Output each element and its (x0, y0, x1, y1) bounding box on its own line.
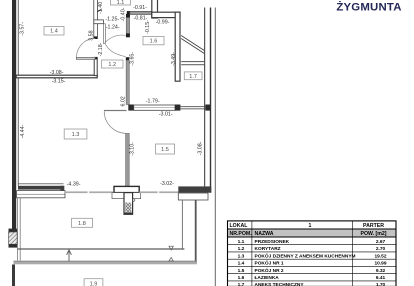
svg-text:LOKAL: LOKAL (230, 223, 249, 229)
svg-text:-3.57-: -3.57- (19, 22, 25, 36)
svg-text:6.41: 6.41 (376, 275, 386, 281)
door jamb cap 1.4 bottom (94, 57, 97, 59)
table horizontal line under row1 (228, 228, 397, 230)
wall right inner face line (204, 8, 205, 187)
entry arrow stem (68, 251, 70, 262)
pier left hatched top cap (9, 229, 18, 232)
column T bar2 (112, 193, 141, 199)
svg-text:-3.08-: -3.08- (198, 141, 204, 155)
terrace floor edge line (17, 248, 184, 249)
svg-text:-3.01-: -3.01- (159, 112, 173, 118)
room label 1.2 (102, 60, 124, 68)
svg-text:ANEKS TECHNICZNY: ANEKS TECHNICZNY (255, 282, 305, 286)
window bottom left outline band (17, 191, 65, 198)
wall divider 1.3/1.5 top cap (126, 57, 129, 60)
svg-text:2.70: 2.70 (376, 246, 386, 252)
svg-text:1.8: 1.8 (78, 221, 86, 227)
window band double line lower (180, 107, 205, 110)
svg-text:-3.08-: -3.08- (50, 70, 64, 76)
table vertical line col2 (351, 221, 353, 286)
svg-text:1.1: 1.1 (117, 0, 125, 6)
room label 1.7 (184, 72, 202, 80)
svg-text:-1.24-: -1.24- (106, 24, 120, 30)
wall bottom right dark band (178, 186, 211, 192)
wall bottom left dark band (18, 186, 64, 190)
svg-text:-3.15-: -3.15- (52, 79, 66, 85)
svg-text:1.6: 1.6 (150, 39, 158, 45)
column T stem (124, 193, 133, 215)
room label 1.8 (72, 218, 93, 227)
dimension tick top left (97, 10, 101, 12)
svg-text:1.70: 1.70 (376, 282, 386, 286)
window band pier 3 (205, 105, 211, 111)
table horizontal line under row 1.3 (228, 258, 397, 260)
terrace left wall line inner (19, 198, 22, 261)
svg-text:PRZEDSIONEK: PRZEDSIONEK (255, 239, 290, 245)
wall right exterior (210, 8, 211, 193)
stairs diagonal lower (181, 39, 204, 54)
terrace right line outer (195, 200, 197, 263)
svg-text:1.7: 1.7 (189, 74, 197, 80)
svg-text:1.2: 1.2 (108, 62, 116, 68)
svg-text:-2.18-: -2.18- (98, 42, 104, 56)
door 1.1 arc upper (105, 35, 126, 43)
room label 1.5 (156, 144, 175, 154)
door 1.4 arc (77, 38, 96, 57)
table vertical line col1 (251, 221, 253, 286)
door jamb 1.6 top cap (126, 14, 130, 18)
line right outer boundary (215, 8, 216, 286)
svg-text:POW. [m2]: POW. [m2] (361, 231, 387, 237)
svg-text:-0.15-: -0.15- (145, 20, 151, 34)
wall divider 1.1/1.6 (126, 14, 129, 37)
svg-text:19.52: 19.52 (374, 253, 386, 259)
wall under 1.1 cap (127, 11, 130, 16)
wall left below ground (12, 265, 15, 286)
svg-text:1.4: 1.4 (50, 29, 58, 35)
glass line left gap dot (88, 191, 90, 193)
wall divider 1.4/1.2 upper (94, 0, 98, 39)
room label 1.4 (44, 27, 64, 36)
svg-text:-4.44-: -4.44- (20, 124, 26, 138)
svg-text:-3.49-: -3.49- (171, 52, 177, 66)
table (228, 221, 397, 286)
table horizontal line under row2 (228, 236, 397, 238)
svg-text:10.99: 10.99 (374, 261, 386, 267)
svg-text:ŁAZIENKA: ŁAZIENKA (255, 275, 280, 281)
column T stem hatch (125, 203, 131, 213)
table horizontal line under row 1.2 (228, 251, 397, 253)
svg-text:-4.39-: -4.39- (67, 182, 81, 188)
glass line left (64, 191, 113, 193)
pier left hatched bottom cap (9, 244, 18, 247)
window bottom left inner line (17, 193, 65, 195)
level marker up triangle (169, 257, 173, 261)
wall divider 1.4/1.2 lower (94, 57, 97, 75)
wall stub 1.1 left (94, 20, 104, 24)
level marker down triangle (169, 246, 173, 250)
wall left inner face line (18, 0, 19, 186)
svg-text:1.3: 1.3 (238, 253, 245, 259)
door 1.6 arc lower (105, 43, 126, 57)
svg-text:ŻYGMUNTA: ŻYGMUNTA (336, 1, 401, 14)
column T stem bottom cap (124, 213, 133, 215)
svg-text:1: 1 (309, 223, 312, 229)
window band double line upper (180, 105, 205, 108)
table row2 gray background (228, 229, 397, 237)
wall shaft 1.6/1.7 right (175, 12, 180, 81)
svg-text:NR.POM.: NR.POM. (230, 231, 253, 237)
door 1.5 leaf (104, 110, 127, 111)
ground band (14, 261, 198, 265)
table horizontal line under row 1.6 (228, 280, 397, 282)
wall divider 1.3/1.5 upper (126, 60, 129, 104)
svg-text:-3.02-: -3.02- (160, 181, 174, 187)
column T bar1 (114, 186, 139, 192)
svg-text:NAZWA: NAZWA (255, 231, 274, 237)
svg-text:1.9: 1.9 (90, 281, 98, 286)
svg-text:-0.40-: -0.40- (120, 7, 126, 21)
svg-text:6.02: 6.02 (120, 96, 126, 106)
table horizontal line under row 1.5 (228, 273, 397, 275)
window bottom right outline band (178, 193, 208, 200)
table horizontal line under row 1.4 (228, 265, 397, 267)
wall top exterior band (152, 12, 180, 17)
svg-text:-3.65-: -3.65- (130, 52, 136, 66)
svg-text:KORYTARZ: KORYTARZ (255, 246, 281, 252)
shaft floor double line lower (181, 63, 204, 66)
svg-text:2.67: 2.67 (376, 239, 386, 245)
window band frame (134, 105, 175, 110)
window band pier 2 (175, 105, 180, 111)
ground band top edge (14, 260, 198, 263)
svg-text:-0.91-: -0.91- (133, 5, 147, 11)
window band frame inner line (134, 107, 175, 109)
svg-text:-3.10-: -3.10- (130, 142, 136, 156)
svg-text:PARTER: PARTER (363, 223, 384, 229)
svg-text:-1.79-: -1.79- (146, 99, 160, 105)
svg-text:-1.25-: -1.25- (105, 17, 119, 23)
svg-text:9.32: 9.32 (376, 268, 386, 274)
glass line right (139, 191, 178, 193)
door 1.5 arc (104, 111, 126, 133)
terrace right line inner (182, 200, 183, 250)
table horizontal line under row 1.1 (228, 244, 397, 246)
door jamb cap 1.4 top (94, 36, 98, 38)
room label 1.9 (84, 279, 103, 286)
wall bottom left end block (60, 186, 64, 194)
entry arrow head (67, 250, 72, 255)
table outer border (228, 221, 397, 286)
floor edge line bottom left (18, 182, 64, 185)
door 1.4 leaf (76, 57, 95, 59)
shaft floor double line upper (181, 60, 204, 63)
door jamb 1.6 bottom cap (126, 33, 130, 37)
room label 1.1 (111, 0, 131, 6)
svg-text:1.3: 1.3 (72, 132, 80, 138)
door 1.1 leaf (103, 24, 105, 44)
room label 1.6 (143, 37, 164, 45)
svg-text:-0.99-: -0.99- (156, 19, 170, 25)
svg-text:1.7: 1.7 (238, 282, 245, 286)
wall under 1.1 gray band (130, 11, 152, 14)
svg-text:1.1: 1.1 (238, 239, 245, 245)
svg-text:3.58: 3.58 (88, 30, 94, 40)
column T small circle (132, 199, 135, 202)
svg-text:1.5: 1.5 (161, 147, 169, 153)
wall bottom of room 1.4 (16, 75, 97, 78)
svg-text:1.5: 1.5 (238, 268, 245, 274)
terrace left wall line outer (16, 198, 19, 261)
stairs diagonal upper (181, 36, 204, 51)
glass line right gap dot (158, 191, 160, 193)
room label 1.3 (64, 129, 87, 139)
window band pier 1 (128, 105, 133, 111)
pier left hatched body (9, 232, 18, 244)
wall divider 1.3/1.5 lower (126, 133, 130, 186)
svg-text:1.2: 1.2 (238, 246, 245, 252)
svg-text:1.6: 1.6 (238, 275, 245, 281)
svg-text:-1.40: -1.40 (98, 2, 104, 14)
svg-text:1.4: 1.4 (238, 261, 245, 267)
wall left exterior black (12, 0, 16, 229)
wall top exterior vertical arm (152, 0, 158, 18)
